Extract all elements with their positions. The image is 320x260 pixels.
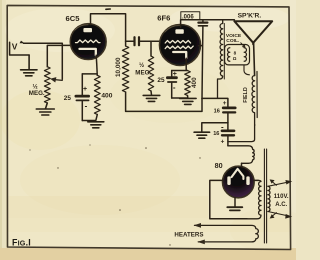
svg-text:MEG.: MEG.	[29, 90, 45, 97]
svg-text:+: +	[83, 86, 87, 93]
wire 80 filament top	[241, 163, 243, 167]
primary winding 110V	[268, 186, 270, 211]
speaker pole wire	[254, 43, 255, 76]
wiper arrow	[55, 79, 63, 82]
svg-text:6F6: 6F6	[157, 14, 170, 23]
ground potentiometer	[36, 103, 54, 115]
80 plates	[227, 176, 230, 185]
6F6 plate bar	[175, 29, 183, 33]
output transformer primary	[218, 20, 223, 99]
capacitor 25 cathode bypass 6F6	[157, 71, 187, 99]
wire screen 6F6 to B plus	[199, 45, 203, 47]
svg-text:Ω: Ω	[233, 56, 237, 61]
ground grid resistor 6F6	[143, 95, 160, 101]
wire B+ rail	[126, 92, 202, 111]
svg-text:+: +	[223, 100, 227, 107]
svg-text:-: -	[221, 122, 224, 131]
svg-text:A.C.: A.C.	[275, 202, 287, 208]
6C5 cathode	[80, 49, 96, 55]
svg-text:.006: .006	[182, 14, 194, 20]
resistor 1/2 MEG grid 6F6	[148, 56, 153, 91]
potentiometer 1/2 MEG volume control	[44, 67, 50, 103]
svg-text:-: -	[85, 102, 88, 111]
svg-text:25: 25	[157, 77, 165, 84]
svg-text:400: 400	[191, 77, 198, 88]
svg-text:COIL.: COIL.	[226, 38, 240, 44]
ground 80 center	[227, 198, 242, 211]
AC plug lead top	[268, 179, 292, 186]
svg-text:V: V	[12, 42, 18, 52]
wire B plus to filter	[202, 98, 228, 106]
ground cathode 6C5	[88, 122, 104, 128]
field coil core	[256, 72, 258, 118]
capacitor .006 plate	[181, 12, 208, 99]
wire voice coil box to field	[244, 65, 249, 75]
AC plug lead bottom	[268, 212, 292, 219]
resistor 400 cathode 6C5	[94, 75, 100, 114]
capacitor coupling	[126, 37, 160, 45]
svg-text:16: 16	[213, 131, 219, 137]
voice coil box	[225, 45, 250, 65]
svg-text:-: -	[173, 83, 176, 92]
scan tick	[106, 8, 110, 10]
svg-text:+: +	[221, 139, 225, 146]
label 1/2 MEG	[135, 62, 151, 77]
6C5 grid zigzag	[76, 40, 100, 43]
field coil	[228, 76, 255, 142]
tube V1 6C5	[66, 14, 107, 59]
6F6 cathode	[173, 52, 186, 58]
svg-text:HEATERS: HEATERS	[174, 232, 203, 239]
svg-text:SP′K′R.: SP′K′R.	[238, 13, 262, 20]
wire grid 6C5 to pot top	[47, 45, 72, 66]
wire plate 6F6	[181, 20, 235, 28]
svg-text:16: 16	[214, 108, 220, 114]
svg-text:400: 400	[101, 92, 112, 99]
capacitor 25 cathode bypass 6C5	[64, 74, 96, 121]
svg-text:+: +	[173, 71, 177, 78]
label 1/2 MEG	[29, 83, 45, 97]
capacitor 16 filter second	[213, 122, 234, 145]
heater winding	[195, 225, 259, 242]
svg-text:FIG.I: FIG.I	[12, 238, 31, 248]
arrow voice coil	[241, 43, 244, 47]
svg-text:MEG.: MEG.	[135, 70, 151, 77]
power transformer core	[263, 149, 265, 243]
ground cathode 6F6	[180, 98, 197, 104]
input terminal V	[10, 41, 30, 55]
resistor 10,000 plate load	[122, 46, 128, 92]
HEATERS arrowheads	[194, 223, 201, 228]
capacitor 16 filter first	[214, 100, 236, 123]
HV secondary winding	[247, 180, 261, 218]
svg-text:FIELD: FIELD	[243, 87, 249, 103]
ground input jack	[21, 55, 37, 76]
wire cathode 6C5	[82, 55, 97, 75]
resistor 400 cathode 6F6	[185, 71, 191, 96]
speaker SPKR cone	[234, 21, 272, 44]
svg-text:½: ½	[139, 62, 144, 69]
6F6 grid 1 zigzag	[165, 41, 190, 44]
6F6 grid 2 screen zigzag	[165, 46, 193, 49]
svg-text:6C5: 6C5	[66, 14, 81, 23]
wire input to volume control wiper	[24, 43, 63, 79]
tube V2 6F6	[157, 14, 200, 66]
wire plate 6C5	[91, 14, 126, 46]
rectifier filament winding 5V	[228, 146, 255, 164]
svg-text:10,000: 10,000	[115, 57, 122, 77]
ground filter midpoint	[194, 123, 228, 139]
svg-text:110V.: 110V.	[274, 194, 289, 200]
output transformer core	[223, 24, 225, 80]
tube V3 80 rectifier	[215, 161, 255, 198]
label VOICE COIL	[226, 33, 242, 44]
wire 80 right plate	[254, 179, 258, 181]
wire 80 left plate	[210, 180, 247, 218]
svg-text:25: 25	[64, 95, 72, 102]
80 filament	[232, 169, 244, 179]
wire cathode 6F6	[172, 58, 188, 70]
svg-text:80: 80	[215, 161, 223, 170]
label 110V AC	[274, 194, 289, 208]
6C5 plate bar	[83, 28, 92, 32]
